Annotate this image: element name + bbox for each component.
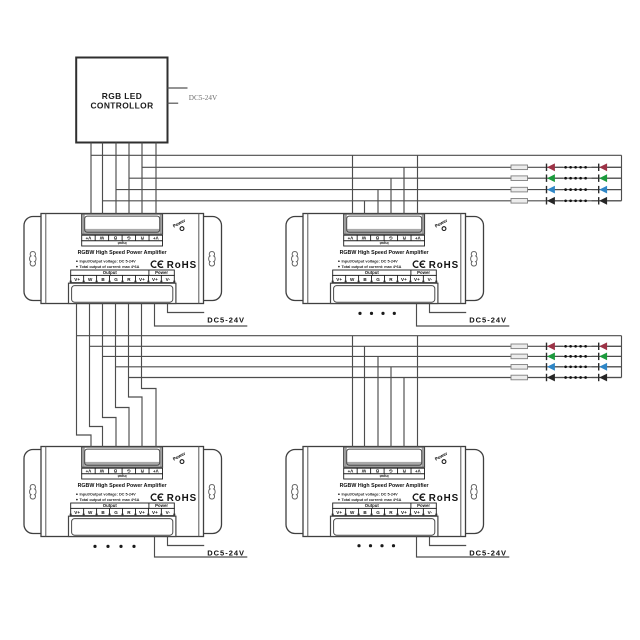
svg-text:DC5-24V: DC5-24V: [189, 94, 218, 102]
svg-text:CONTROLLOR: CONTROLLOR: [90, 100, 153, 110]
svg-text:DC5-24V: DC5-24V: [207, 315, 245, 324]
svg-text:DC5-24V: DC5-24V: [469, 548, 507, 557]
svg-text:DC5-24V: DC5-24V: [207, 548, 245, 557]
svg-text:DC5-24V: DC5-24V: [469, 315, 507, 324]
